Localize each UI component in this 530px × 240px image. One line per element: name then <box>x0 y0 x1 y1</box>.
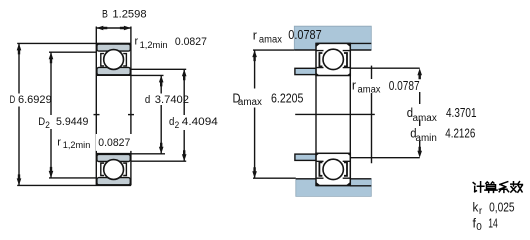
wire d dimension line <box>160 75 162 153</box>
inner band line <box>316 160 350 162</box>
arrows right figure <box>252 50 422 178</box>
svg-text:0: 0 <box>476 222 482 233</box>
arrow D2 top <box>49 52 54 63</box>
arrow B left <box>96 26 107 31</box>
housing top bore/shoulder edges <box>294 49 371 51</box>
svg-text:amax: amax <box>358 85 381 96</box>
arrow Damax top <box>252 50 257 61</box>
damin vertical <box>371 66 373 164</box>
outer band line <box>316 177 350 179</box>
arrow d2 top <box>182 69 187 80</box>
svg-text:5.9449: 5.9449 <box>56 116 88 128</box>
corner marks <box>316 153 350 185</box>
da leader line segments <box>419 92 421 150</box>
axis line right figure <box>295 113 375 115</box>
housing bottom shoulder edges <box>296 178 372 180</box>
svg-text:D: D <box>38 116 45 128</box>
chinese title 计算系数 <box>473 182 522 193</box>
housing notch sides bottom <box>316 179 350 186</box>
outer ring band top <box>97 44 130 51</box>
wire d top extension <box>131 74 164 76</box>
svg-text:0,025: 0,025 <box>489 201 515 215</box>
svg-text:6.2205: 6.2205 <box>271 91 303 105</box>
wire D top extension <box>17 42 131 44</box>
svg-text:amax: amax <box>413 113 437 124</box>
svg-text:amin: amin <box>416 133 437 144</box>
arrow D top <box>17 43 22 54</box>
svg-text:amax: amax <box>259 34 282 45</box>
arrow da bottom <box>417 147 422 158</box>
wire B dimension line <box>96 27 131 29</box>
arrow D bottom <box>17 174 22 185</box>
shaft shoulder bottom left <box>295 154 316 160</box>
cage bar left <box>319 162 322 175</box>
section top edge <box>96 153 131 155</box>
svg-text:1.2598: 1.2598 <box>112 8 146 20</box>
svg-text:0.0827: 0.0827 <box>175 36 207 48</box>
bearing side lines between sections <box>316 76 350 154</box>
arrow d bottom <box>159 143 164 154</box>
wire D bottom extension <box>17 184 131 186</box>
wire d bottom extension <box>131 153 165 155</box>
wire D2 bottom extension <box>49 177 96 179</box>
svg-text:d: d <box>169 116 174 128</box>
housing notch sides <box>316 43 350 50</box>
svg-text:r: r <box>352 78 356 92</box>
svg-text:14: 14 <box>488 217 498 231</box>
outer ring band bottom <box>97 178 130 185</box>
svg-text:D: D <box>10 94 16 106</box>
cage bracket left <box>101 163 104 175</box>
wire d2 top extension <box>131 68 186 70</box>
svg-text:B: B <box>102 8 108 20</box>
corner marks <box>316 43 350 75</box>
ball top <box>104 50 124 70</box>
ball bottom right fig <box>323 159 343 179</box>
cage bar left <box>319 53 322 66</box>
Damax bottom extension <box>253 177 296 179</box>
top section of left bearing <box>96 44 131 75</box>
housing top block <box>294 26 371 50</box>
wire B extension right <box>130 27 132 44</box>
axis tick left <box>94 114 100 116</box>
svg-text:r: r <box>135 35 139 47</box>
ball bottom <box>104 160 124 180</box>
svg-text:d: d <box>145 94 150 106</box>
cage bar right <box>344 53 347 66</box>
cage bar right <box>344 162 347 175</box>
inner ring band top <box>97 154 130 161</box>
wire D2 dimension line <box>50 52 52 178</box>
ball top right fig <box>323 49 343 69</box>
svg-text:0.0787: 0.0787 <box>389 79 420 93</box>
svg-text:4.3701: 4.3701 <box>446 106 477 120</box>
svg-text:amax: amax <box>238 97 262 108</box>
svg-text:r: r <box>253 29 257 43</box>
wire B extension left <box>95 27 97 44</box>
svg-text:2: 2 <box>45 120 50 130</box>
svg-text:3.7402: 3.7402 <box>155 94 189 106</box>
bottom section of left bearing <box>96 154 131 186</box>
svg-text:2: 2 <box>175 120 180 130</box>
bearing top section (right figure) <box>316 43 350 75</box>
arrow D2 bottom <box>49 167 54 178</box>
label box 0.0827 lower <box>96 134 133 151</box>
wire D dimension line <box>18 43 20 185</box>
cage bracket right <box>123 54 126 66</box>
housing bottom block <box>296 179 372 197</box>
arrows left figure <box>17 26 187 186</box>
section bottom edge <box>96 184 131 186</box>
arrow d top <box>159 75 164 86</box>
svg-text:4.4094: 4.4094 <box>182 116 218 128</box>
cage bracket right <box>123 163 126 175</box>
svg-text:6.6929: 6.6929 <box>18 94 52 106</box>
section bottom edge <box>96 74 131 76</box>
outer band line <box>316 50 350 52</box>
svg-text:0.0827: 0.0827 <box>98 137 130 149</box>
svg-text:4.2126: 4.2126 <box>445 126 475 140</box>
bore line bottom <box>316 185 350 187</box>
Damax top extension <box>253 49 294 51</box>
svg-text:1,2min: 1,2min <box>140 40 168 50</box>
da extension bottom <box>351 157 420 159</box>
arrow d2 bottom <box>182 150 187 161</box>
section top edge <box>96 43 131 45</box>
axis tick right <box>128 114 134 116</box>
arrow B right <box>120 26 131 31</box>
shaft shoulder top left <box>295 68 316 74</box>
da extension top <box>351 67 420 69</box>
inner ring band bottom <box>97 67 130 74</box>
svg-text:1,2min: 1,2min <box>63 140 91 150</box>
wire D2 top extension <box>49 51 96 53</box>
bore line top <box>316 42 371 44</box>
wire d2 bottom extension <box>131 160 186 162</box>
bearing outline sides <box>96 43 131 185</box>
wire d2 dimension line <box>183 69 185 161</box>
Damax dimension line <box>254 50 256 178</box>
inner band line <box>316 67 350 69</box>
arrow Damax bottom <box>252 167 257 178</box>
bearing bottom section (right figure) <box>316 153 350 185</box>
arrow da top <box>417 68 422 79</box>
cage bracket left <box>101 54 104 66</box>
svg-text:0.0787: 0.0787 <box>288 28 321 42</box>
svg-text:r: r <box>57 136 61 148</box>
